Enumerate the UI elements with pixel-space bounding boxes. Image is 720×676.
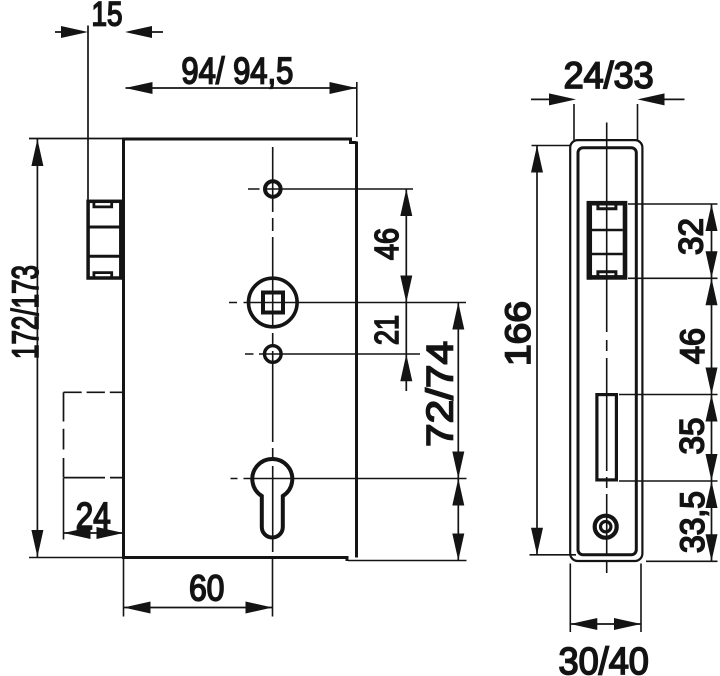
side view: inner wall xyxy=(578,148,636,555)
lower small hole xyxy=(265,346,282,363)
spindle hole (square) xyxy=(263,293,283,313)
upper small hole xyxy=(265,181,281,197)
dimension 60 xyxy=(124,559,273,617)
dimension 72/74 xyxy=(452,303,464,479)
svg-text:94/ 94,5: 94/ 94,5 xyxy=(181,51,293,92)
dimension 166 xyxy=(530,146,577,555)
svg-text:30/40: 30/40 xyxy=(559,641,649,676)
front view: bottom edge thin extension for 172/173 xyxy=(29,557,124,559)
dimension 15 xyxy=(55,26,163,38)
vertical centerline (front) xyxy=(272,147,274,552)
svg-text:46: 46 xyxy=(674,328,712,364)
dimension 35 (side) xyxy=(706,395,718,482)
svg-text:33,5: 33,5 xyxy=(674,491,712,553)
svg-text:15: 15 xyxy=(92,0,123,34)
front view: lock case outline xyxy=(124,138,357,562)
dimension 46 (front) xyxy=(400,189,412,303)
svg-text:24/33: 24/33 xyxy=(564,55,654,96)
latch bolt (side view) xyxy=(589,201,625,280)
hidden faceplate part (dashed) xyxy=(64,392,124,477)
front view: bottom-right thin extension xyxy=(348,560,467,562)
svg-text:35: 35 xyxy=(674,418,712,455)
dimension 32 (side) xyxy=(706,204,718,278)
dimension 30/40 xyxy=(570,564,641,633)
svg-text:32: 32 xyxy=(673,218,711,255)
side view: centerline xyxy=(606,123,608,574)
dimension 33,5 (side) xyxy=(706,481,718,561)
dimension 21 xyxy=(400,303,412,392)
side view: outer case xyxy=(570,140,642,561)
svg-text:46: 46 xyxy=(368,228,405,260)
front view: top edge thin extension (faceplate top + 172/173 ext) xyxy=(29,138,124,140)
dimension 94/94,5 xyxy=(126,82,357,137)
unlabeled lower dimension (front) xyxy=(452,479,464,561)
svg-text:172/173: 172/173 xyxy=(5,265,46,359)
svg-text:72/74: 72/74 xyxy=(420,341,461,447)
dimension 46 (side) xyxy=(706,278,718,394)
svg-text:21: 21 xyxy=(368,315,405,345)
dimension 172/173 xyxy=(31,139,43,557)
right column extension lines xyxy=(619,204,718,561)
svg-text:60: 60 xyxy=(189,568,225,609)
dimension 24/33 xyxy=(531,93,685,140)
latch bolt (front view) xyxy=(88,201,121,278)
front view: faceplate left edge / 15-dim extension xyxy=(87,26,89,200)
svg-text:166: 166 xyxy=(499,301,538,366)
profile cylinder hole xyxy=(252,459,292,538)
svg-text:24: 24 xyxy=(76,496,111,538)
dimension 24 xyxy=(64,478,124,540)
spindle hole (circle) xyxy=(248,278,297,327)
cylinder slot (side view) xyxy=(597,395,617,480)
horizontal centerlines (front holes) xyxy=(229,189,467,479)
screw hole (side view) xyxy=(595,516,617,538)
